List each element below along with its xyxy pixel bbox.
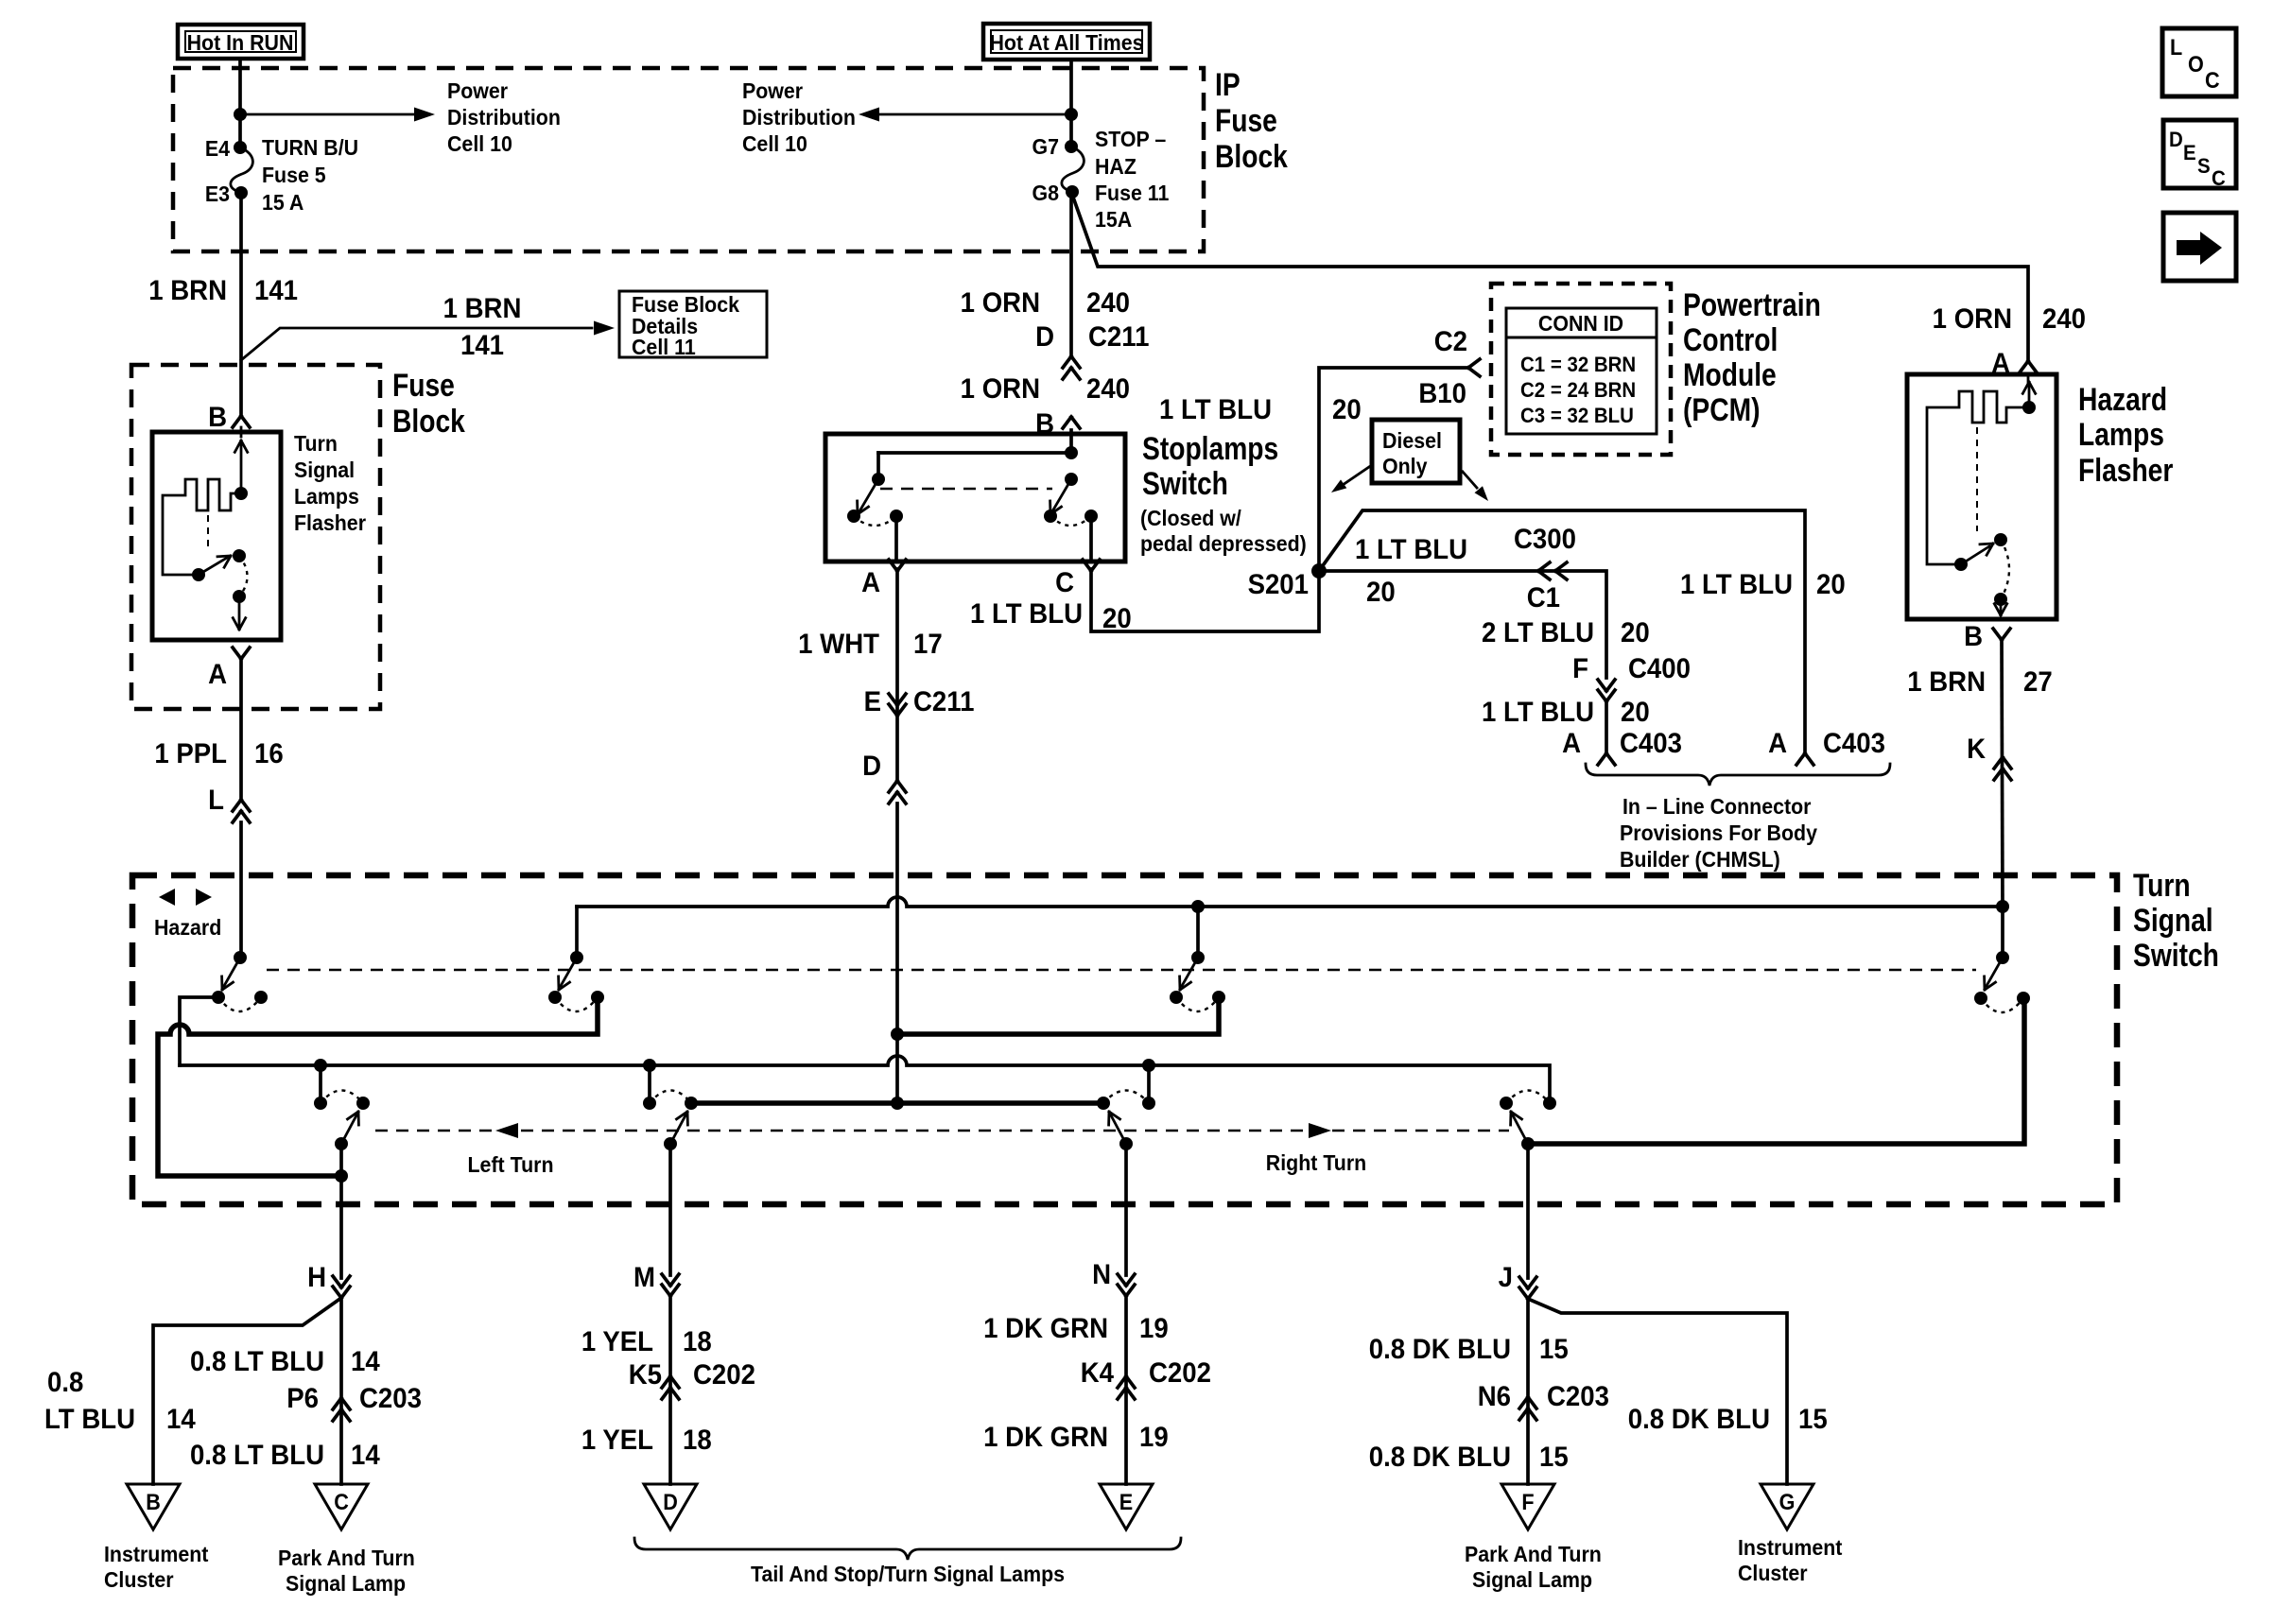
wire L labels <box>154 738 283 769</box>
svg-text:C: C <box>2212 166 2226 190</box>
svg-text:15: 15 <box>1798 1404 1828 1435</box>
switch SW-B <box>548 907 604 1011</box>
svg-text:IP: IP <box>1215 67 1241 103</box>
wire H split to instrument cluster <box>153 1298 341 1484</box>
svg-text:1 LT BLU: 1 LT BLU <box>1680 569 1793 600</box>
svg-text:27: 27 <box>2023 666 2053 698</box>
terminal J label <box>1499 1262 1513 1293</box>
terminal N label <box>1092 1259 1111 1290</box>
svg-text:1 ORN: 1 ORN <box>961 287 1040 319</box>
svg-text:1 LT BLU: 1 LT BLU <box>970 598 1083 630</box>
svg-text:Cell 11: Cell 11 <box>632 335 696 359</box>
svg-text:1 LT BLU: 1 LT BLU <box>1482 697 1594 728</box>
wire C to S201 (1 LT BLU 20) <box>1091 569 1319 631</box>
svg-text:18: 18 <box>683 1326 712 1357</box>
turn signal lamps flasher box <box>152 432 281 640</box>
svg-text:Fuse: Fuse <box>1215 103 1277 139</box>
fuse 5 annotation <box>262 135 358 215</box>
svg-text:0.8: 0.8 <box>47 1367 83 1398</box>
svg-text:Turn: Turn <box>294 431 338 456</box>
svg-text:Signal: Signal <box>2133 903 2213 939</box>
label 0.8 DK BLU 15 cluster branch <box>1628 1404 1828 1435</box>
node S201 <box>1248 563 1327 600</box>
node stub SW-G <box>1142 1059 1155 1072</box>
brace tail and stop lamps <box>634 1538 1181 1560</box>
svg-text:Distribution: Distribution <box>742 105 856 130</box>
next page arrow box <box>2163 213 2236 281</box>
wire D into turn signal switch <box>895 803 899 1034</box>
svg-text:Lamps: Lamps <box>2078 417 2164 453</box>
fuse F5 TURN B/U 15A <box>231 141 253 199</box>
svg-text:C403: C403 <box>1823 728 1885 759</box>
left turn arrow <box>468 1123 554 1177</box>
svg-text:Powertrain: Powertrain <box>1683 287 1821 323</box>
svg-text:1 WHT: 1 WHT <box>798 629 879 660</box>
svg-text:20: 20 <box>1332 394 1362 425</box>
svg-text:Power: Power <box>447 78 508 103</box>
svg-text:N: N <box>1092 1259 1111 1290</box>
svg-text:E: E <box>2183 141 2196 164</box>
label 0.8 LT BLU 14 upper <box>190 1346 380 1377</box>
connector C403 right terminal A <box>1768 728 1885 765</box>
svg-text:C: C <box>334 1489 349 1514</box>
terminal A fuse block <box>208 648 250 690</box>
svg-text:20: 20 <box>1621 617 1650 648</box>
wire M to lamp <box>668 1296 672 1484</box>
connector C2 label <box>1434 326 1467 357</box>
connector C400 terminal F <box>1572 653 1691 701</box>
turn flasher heater element <box>163 427 248 575</box>
svg-text:20: 20 <box>1102 603 1132 634</box>
svg-text:N6: N6 <box>1478 1381 1511 1412</box>
svg-text:240: 240 <box>1086 287 1130 319</box>
wire fuse5 to fuse block B (1 BRN 141) <box>239 193 243 416</box>
svg-text:C203: C203 <box>359 1383 422 1414</box>
svg-text:G: G <box>1779 1489 1796 1514</box>
svg-text:D: D <box>862 751 881 782</box>
svg-text:Park And Turn: Park And Turn <box>1465 1542 1602 1566</box>
svg-text:STOP –: STOP – <box>1095 127 1166 151</box>
node K junction <box>1996 900 2009 913</box>
row2 mechanical dashed link left <box>375 1130 1509 1132</box>
label 1 WHT 17 <box>798 629 943 660</box>
wire tap to fuse block details <box>241 321 615 361</box>
stoplamps switch label <box>1140 431 1307 557</box>
label 1 ORN 240 below C211 <box>961 373 1130 405</box>
connector H chevrons <box>333 1276 350 1298</box>
svg-text:J: J <box>1499 1262 1513 1293</box>
svg-text:Distribution: Distribution <box>447 105 561 130</box>
terminal A chevron <box>861 560 906 598</box>
terminal C chevron <box>1055 560 1100 598</box>
connector N chevrons <box>1118 1274 1135 1296</box>
svg-text:C403: C403 <box>1620 728 1682 759</box>
svg-text:G8: G8 <box>1032 181 1059 205</box>
svg-text:E3: E3 <box>205 181 230 206</box>
svg-text:C: C <box>2205 67 2220 93</box>
svg-text:19: 19 <box>1139 1313 1169 1344</box>
stoplamp switch mechanical link <box>880 488 1052 490</box>
stoplamp switch pole 1 <box>847 473 903 526</box>
svg-text:19: 19 <box>1139 1422 1169 1453</box>
label 1 ORN 240 above C211 <box>961 287 1130 319</box>
right turn arrow <box>1266 1123 1366 1175</box>
connector C203 terminal P6 <box>286 1383 422 1421</box>
triangle G instrument cluster <box>1761 1484 1813 1529</box>
switch SW-H <box>1500 1091 1556 1151</box>
svg-text:Switch: Switch <box>1142 466 1228 502</box>
svg-text:Right Turn: Right Turn <box>1266 1150 1366 1175</box>
wire from Hot In RUN to fuse 5 <box>238 59 242 147</box>
label 1 LT BLU 20 top <box>1159 394 1362 425</box>
svg-text:CONN ID: CONN ID <box>1538 311 1623 336</box>
row1 common wire to K <box>577 897 2003 907</box>
connector C211 terminal E <box>864 686 975 717</box>
wire hazard B to K (1 BRN 27) <box>2002 640 2003 907</box>
svg-text:1 YEL: 1 YEL <box>581 1425 653 1456</box>
svg-text:Cell 10: Cell 10 <box>447 131 512 156</box>
switch SW-A hazard feed <box>212 951 268 1011</box>
svg-text:K5: K5 <box>629 1359 662 1391</box>
svg-text:Hot At All Times: Hot At All Times <box>989 30 1143 55</box>
power source box Hot At All Times <box>983 24 1150 60</box>
connector M chevrons <box>662 1274 679 1296</box>
svg-text:1 BRN: 1 BRN <box>443 293 522 324</box>
turn signal lamps flasher label <box>294 431 366 535</box>
label 1 YEL 18 upper <box>581 1326 712 1357</box>
svg-text:D: D <box>2169 128 2183 151</box>
terminal E3 label <box>205 181 230 206</box>
svg-text:2 LT BLU: 2 LT BLU <box>1482 617 1594 648</box>
svg-text:1 LT BLU: 1 LT BLU <box>1355 534 1467 565</box>
park and turn signal lamp label left <box>278 1546 415 1596</box>
label 1 LT BLU 20 below C400 <box>1482 697 1650 728</box>
park and turn signal lamp label right <box>1465 1542 1602 1592</box>
Power Distribution Cell 10 label (middle) <box>742 78 856 156</box>
connector C211 chevrons <box>1063 356 1080 379</box>
svg-text:Fuse 5: Fuse 5 <box>262 163 326 187</box>
label 1 BRN 141 on details arrow <box>443 293 522 361</box>
svg-text:Signal Lamp: Signal Lamp <box>1472 1567 1592 1592</box>
svg-text:M: M <box>633 1262 655 1293</box>
svg-text:E: E <box>864 686 881 717</box>
hazard lamps flasher label <box>2078 382 2173 489</box>
middle thick rail <box>691 1100 1103 1106</box>
wire D to middle rail <box>891 1034 904 1110</box>
wire arrow to Power Distribution Cell 10 (left) <box>859 108 1071 122</box>
fuse block label <box>392 368 465 440</box>
svg-text:Tail And Stop/Turn Signal Lamp: Tail And Stop/Turn Signal Lamps <box>751 1562 1065 1586</box>
switch SW-G <box>1097 1065 1155 1150</box>
label 2 LT BLU 20 <box>1482 617 1650 648</box>
svg-text:14: 14 <box>166 1404 196 1435</box>
svg-text:Builder (CHMSL): Builder (CHMSL) <box>1620 847 1780 872</box>
terminal A hazard flasher <box>1991 348 2037 379</box>
wire 1 PPL to hazard switch <box>239 822 243 958</box>
terminal B hazard flasher <box>1964 621 2010 652</box>
wire arrow to Power Distribution Cell 10 <box>240 108 435 122</box>
svg-text:E4: E4 <box>205 136 231 161</box>
svg-text:H: H <box>307 1262 326 1293</box>
label 0.8 LT BLU 14 cluster branch <box>44 1367 196 1435</box>
node stub SW-E <box>314 1059 327 1072</box>
svg-text:Cluster: Cluster <box>1738 1561 1808 1585</box>
svg-text:Stoplamps: Stoplamps <box>1142 431 1278 467</box>
svg-text:A: A <box>208 659 227 690</box>
connector C403 left terminal A <box>1562 728 1682 765</box>
svg-text:L: L <box>2170 34 2182 60</box>
svg-text:15: 15 <box>1539 1334 1569 1365</box>
terminal M label <box>633 1262 655 1293</box>
thick link SW-H pivot to SW-D contact <box>1528 998 2024 1144</box>
svg-text:Instrument: Instrument <box>104 1542 209 1566</box>
svg-text:C2 = 24 BRN: C2 = 24 BRN <box>1520 378 1636 402</box>
PCM label <box>1683 287 1821 428</box>
label 0.8 DK BLU 15 lower <box>1369 1442 1569 1473</box>
node junction to power distribution left <box>1065 108 1078 121</box>
svg-text:15 A: 15 A <box>262 190 304 215</box>
svg-text:C1 = 32 BRN: C1 = 32 BRN <box>1520 353 1636 376</box>
triangle D tail lamp <box>644 1484 697 1529</box>
label 1 BRN 27 <box>1907 666 2052 698</box>
svg-text:S: S <box>2197 154 2211 178</box>
svg-text:1 DK GRN: 1 DK GRN <box>983 1313 1108 1344</box>
LOC nav box <box>2162 28 2236 96</box>
IP Fuse Block label <box>1215 67 1288 175</box>
svg-text:Control: Control <box>1683 322 1778 358</box>
label 0.8 DK BLU 15 upper <box>1369 1334 1569 1365</box>
svg-text:G7: G7 <box>1032 134 1059 159</box>
wire S201 to C300 to C400 <box>1319 571 1606 678</box>
svg-text:L: L <box>208 785 224 816</box>
svg-text:Instrument: Instrument <box>1738 1535 1843 1560</box>
svg-text:Flasher: Flasher <box>294 510 366 535</box>
right thick link SW-C to D wire <box>891 997 1219 1041</box>
svg-text:20: 20 <box>1621 697 1650 728</box>
svg-text:B10: B10 <box>1418 378 1466 409</box>
wire G8 down (1 ORN 240) <box>1069 192 1073 356</box>
svg-text:1 ORN: 1 ORN <box>1933 303 2012 335</box>
svg-text:C: C <box>1055 567 1074 598</box>
svg-text:14: 14 <box>351 1440 380 1471</box>
svg-text:E: E <box>1119 1489 1133 1514</box>
turn flasher dashed link <box>207 515 209 546</box>
svg-text:Fuse Block: Fuse Block <box>632 292 740 317</box>
wire Hot At All Times to fuse 11 <box>1069 60 1073 147</box>
wire flasher A to L <box>239 659 243 800</box>
svg-text:B: B <box>1964 621 1983 652</box>
turn signal switch dashed boundary <box>132 875 2117 1204</box>
svg-text:S201: S201 <box>1248 569 1309 600</box>
connector J chevrons <box>1519 1277 1536 1299</box>
svg-text:15A: 15A <box>1095 207 1132 232</box>
stoplamps switch box <box>825 434 1125 561</box>
svg-text:C202: C202 <box>1149 1357 1211 1389</box>
connector C2 chevron <box>1468 359 1480 376</box>
svg-text:C300: C300 <box>1514 524 1576 555</box>
svg-text:Hazard: Hazard <box>2078 382 2167 418</box>
svg-text:K4: K4 <box>1081 1357 1114 1389</box>
svg-text:14: 14 <box>351 1346 380 1377</box>
label 0.8 LT BLU 14 lower <box>190 1440 380 1471</box>
wire C400 to C403 (1 LT BLU 20) <box>1605 703 1608 752</box>
triangle C park turn lamp <box>315 1484 368 1529</box>
terminal H label <box>307 1262 326 1293</box>
svg-text:F: F <box>1521 1489 1534 1514</box>
hazard position icon <box>154 889 221 940</box>
svg-text:A: A <box>1562 728 1581 759</box>
svg-text:B: B <box>208 402 227 433</box>
svg-text:Hazard: Hazard <box>154 915 221 940</box>
DESC nav box <box>2163 120 2236 190</box>
diesel only arrow right <box>1463 472 1488 501</box>
svg-text:B: B <box>146 1489 161 1514</box>
node stub SW-F <box>643 1059 656 1072</box>
hazard flasher heater element <box>1927 374 2036 564</box>
stoplamp switch feed wire <box>878 430 1078 479</box>
svg-text:C211: C211 <box>1088 321 1149 353</box>
svg-text:F: F <box>1572 653 1588 684</box>
connector D into turn signal switch <box>862 751 906 803</box>
svg-text:pedal depressed): pedal depressed) <box>1140 531 1307 556</box>
node junction to power distribution <box>234 108 247 121</box>
svg-text:A: A <box>1768 728 1787 759</box>
terminal B fuse block <box>208 402 250 433</box>
label 1 ORN 240 hazard <box>1933 303 2086 335</box>
hazard lamps flasher box <box>1907 374 2056 619</box>
switch SW-D <box>1974 907 2030 1012</box>
svg-text:D: D <box>1035 321 1054 353</box>
IP fuse block dashed boundary <box>173 68 1204 251</box>
label 1 LT BLU 20 S201 branch <box>1355 534 1467 608</box>
diesel only box <box>1372 420 1460 483</box>
svg-text:Power: Power <box>742 78 803 103</box>
svg-text:In – Line Connector: In – Line Connector <box>1622 794 1812 819</box>
svg-text:K: K <box>1967 734 1986 765</box>
svg-text:Fuse: Fuse <box>392 368 455 404</box>
svg-text:1 BRN: 1 BRN <box>1907 666 1986 698</box>
PCM conn id table <box>1506 308 1657 434</box>
instrument cluster label right <box>1738 1535 1843 1585</box>
svg-text:C3 = 32 BLU: C3 = 32 BLU <box>1520 404 1634 427</box>
svg-text:18: 18 <box>683 1425 712 1456</box>
svg-text:141: 141 <box>254 275 298 306</box>
stoplamp output A wire <box>894 516 898 561</box>
terminal E4 label <box>205 136 231 161</box>
connector C202 terminal K4 <box>1081 1357 1211 1399</box>
svg-text:C202: C202 <box>693 1359 755 1391</box>
svg-text:Only: Only <box>1382 454 1428 478</box>
wire J output <box>1526 1144 1530 1278</box>
terminal B of stoplamp switch <box>1035 408 1080 440</box>
wire C2 to S201 (1 LT BLU 20) <box>1319 368 1468 571</box>
svg-text:0.8 LT BLU: 0.8 LT BLU <box>190 1346 324 1377</box>
svg-text:1 PPL: 1 PPL <box>154 738 227 769</box>
svg-text:LT BLU: LT BLU <box>44 1404 135 1435</box>
label 1 YEL 18 lower <box>581 1425 712 1456</box>
svg-text:C1: C1 <box>1527 582 1560 613</box>
svg-text:Hot In RUN: Hot In RUN <box>187 30 294 55</box>
svg-text:0.8 DK BLU: 0.8 DK BLU <box>1369 1442 1511 1473</box>
svg-text:Block: Block <box>392 404 465 440</box>
turn flasher switch <box>192 549 248 630</box>
wire J split to instrument cluster <box>1528 1299 1787 1484</box>
switch SW-F <box>643 1065 698 1150</box>
fuse F11 STOP-HAZ 15A <box>1062 140 1084 199</box>
svg-text:Flasher: Flasher <box>2078 453 2173 489</box>
svg-text:P6: P6 <box>286 1383 319 1414</box>
stoplamp output C wire <box>1089 516 1093 561</box>
connector C202 terminal K5 <box>629 1359 755 1399</box>
label 1 LT BLU 20 on C wire <box>970 598 1132 634</box>
svg-text:141: 141 <box>460 330 504 361</box>
switch SW-C <box>1170 907 1225 1011</box>
svg-text:Block: Block <box>1215 139 1288 175</box>
svg-text:Turn: Turn <box>2133 868 2191 904</box>
triangle E tail lamp <box>1100 1484 1153 1529</box>
left thick link SW-B to H switch <box>158 997 598 1176</box>
svg-text:Left Turn: Left Turn <box>468 1152 554 1177</box>
svg-text:1 DK GRN: 1 DK GRN <box>983 1422 1108 1453</box>
diesel only arrow left <box>1331 467 1369 492</box>
node SW-C feed <box>1191 900 1205 913</box>
svg-text:Module: Module <box>1683 357 1777 393</box>
svg-text:0.8 DK BLU: 0.8 DK BLU <box>1628 1404 1770 1435</box>
power source box Hot In RUN <box>178 25 304 59</box>
wire label 1 BRN 141 <box>148 275 298 306</box>
connector C203 terminal N6 <box>1478 1381 1609 1420</box>
wire G8 diagonal to hazard flasher <box>1071 192 2028 361</box>
svg-text:Fuse 11: Fuse 11 <box>1095 181 1169 205</box>
label 1 DK GRN 19 lower <box>983 1422 1169 1453</box>
turn signal switch label <box>2133 868 2219 974</box>
triangle B instrument cluster <box>127 1484 180 1529</box>
svg-text:(PCM): (PCM) <box>1683 392 1760 428</box>
svg-text:HAZ: HAZ <box>1095 154 1136 179</box>
Power Distribution Cell 10 label (left) <box>447 78 561 156</box>
stoplamp switch pole 2 <box>1044 473 1098 526</box>
fuse block details cell 11 box <box>619 291 767 359</box>
row2 common thin rail <box>180 1056 1550 1103</box>
brace CHMSL connectors <box>1586 764 1890 786</box>
svg-text:16: 16 <box>254 738 284 769</box>
wire A to C211 E (1 WHT 17) <box>895 569 899 781</box>
svg-text:A: A <box>861 567 880 598</box>
CHMSL note <box>1620 794 1818 872</box>
hazard flasher dashed link <box>1976 427 1978 531</box>
svg-text:Signal Lamp: Signal Lamp <box>286 1571 406 1596</box>
svg-text:0.8 DK BLU: 0.8 DK BLU <box>1369 1334 1511 1365</box>
wire S201 to C403 right (1 LT BLU 20) <box>1319 510 1805 752</box>
svg-text:1 YEL: 1 YEL <box>581 1326 653 1357</box>
connector C1 label <box>1527 582 1560 613</box>
svg-text:C400: C400 <box>1628 653 1691 684</box>
svg-text:C2: C2 <box>1434 326 1467 357</box>
svg-text:20: 20 <box>1366 577 1396 608</box>
svg-text:Switch: Switch <box>2133 938 2219 974</box>
svg-text:1 LT BLU: 1 LT BLU <box>1159 394 1272 425</box>
svg-text:17: 17 <box>913 629 943 660</box>
svg-text:0.8 LT BLU: 0.8 LT BLU <box>190 1440 324 1471</box>
tail and stop turn lamps label <box>751 1562 1065 1586</box>
svg-text:D: D <box>663 1489 678 1514</box>
svg-text:20: 20 <box>1816 569 1846 600</box>
hazard flasher switch <box>1954 533 2009 615</box>
svg-text:240: 240 <box>1086 373 1130 405</box>
connector C300 label <box>1514 524 1576 555</box>
svg-text:Lamps: Lamps <box>294 484 359 509</box>
svg-text:Signal: Signal <box>294 458 355 482</box>
